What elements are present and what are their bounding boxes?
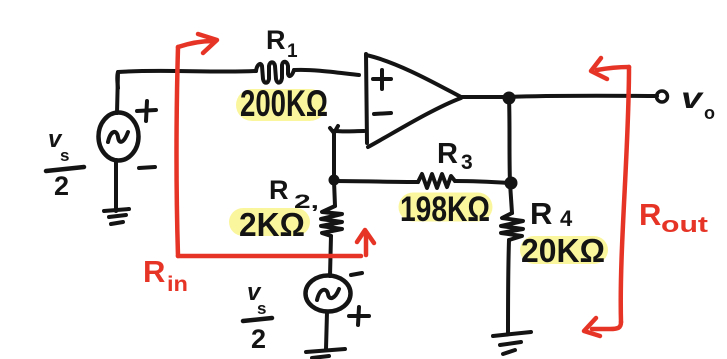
svg-text:1: 1: [287, 41, 298, 62]
svg-text:2: 2: [54, 171, 69, 201]
svg-text:out: out: [661, 212, 709, 237]
svg-text:v: v: [681, 82, 705, 115]
svg-text:4: 4: [560, 206, 573, 231]
svg-text:200KΩ: 200KΩ: [240, 83, 328, 124]
svg-text:in: in: [167, 273, 188, 296]
svg-text:R: R: [266, 25, 286, 55]
svg-text:R: R: [437, 138, 458, 170]
svg-text:3: 3: [461, 151, 473, 174]
svg-text:R: R: [639, 197, 661, 232]
svg-text:s: s: [60, 146, 69, 165]
svg-text:R: R: [143, 254, 165, 289]
svg-text:198KΩ: 198KΩ: [400, 190, 490, 229]
svg-text:R: R: [269, 175, 289, 205]
svg-text:o: o: [704, 103, 715, 123]
svg-text:s: s: [257, 299, 266, 318]
svg-text:20KΩ: 20KΩ: [521, 232, 605, 269]
svg-text:2KΩ: 2KΩ: [239, 206, 305, 243]
svg-text:R: R: [530, 196, 552, 231]
svg-text:2: 2: [251, 324, 266, 354]
